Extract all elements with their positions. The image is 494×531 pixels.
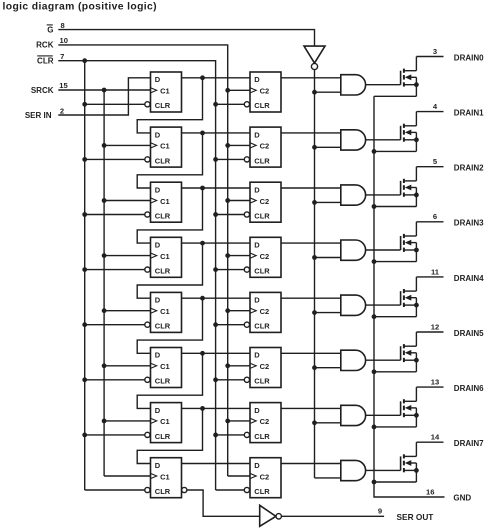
wire CLR rail to C2 CLR row 4 xyxy=(216,324,245,326)
wire G input to inverter xyxy=(58,30,314,46)
svg-text:SER IN: SER IN xyxy=(25,111,52,120)
svg-text:2: 2 xyxy=(60,106,64,115)
junction C1 CLR rail row 4 xyxy=(82,322,87,327)
svg-text:5: 5 xyxy=(433,157,438,166)
AND gate row 2 xyxy=(341,185,366,205)
junction SRCK / SRCK rail xyxy=(102,88,107,93)
svg-text:CLR: CLR xyxy=(155,377,171,386)
svg-text:16: 16 xyxy=(426,488,434,497)
svg-text:10: 10 xyxy=(59,36,67,45)
wire Q3 to storage D row 3 xyxy=(182,242,251,244)
junction RCK rail row 6 xyxy=(225,419,230,424)
AND gate row 1 xyxy=(341,130,366,150)
svg-text:D: D xyxy=(254,130,260,139)
svg-text:C2: C2 xyxy=(260,307,270,316)
svg-text:C1: C1 xyxy=(160,87,170,96)
svg-text:CLR: CLR xyxy=(254,156,270,165)
svg-text:SER OUT: SER OUT xyxy=(397,512,434,522)
flip-flop shift stage 3 (C1) xyxy=(145,237,182,277)
wire G-bar to AND input row 3 xyxy=(315,257,341,259)
wire RCK rail to C2 clock row 3 xyxy=(228,255,250,257)
flip-flop storage stage 1 (C2) xyxy=(244,127,281,167)
svg-text:12: 12 xyxy=(431,322,439,331)
flip-flop shift stage 4 (C1) xyxy=(145,292,182,332)
AND gate row 7 xyxy=(341,460,366,480)
svg-text:DRAIN2: DRAIN2 xyxy=(454,164,484,173)
svg-text:logic diagram (positive logic): logic diagram (positive logic) xyxy=(3,1,158,12)
wire CLR rail to C1 CLR row 0 xyxy=(85,103,145,105)
svg-text:C1: C1 xyxy=(160,142,170,151)
junction SRCK rail row 4 xyxy=(102,308,107,313)
wire Q chain row 4 to D row 5 xyxy=(137,298,202,353)
wire drain pin row 6 xyxy=(416,386,443,388)
svg-text:DRAIN6: DRAIN6 xyxy=(454,384,484,393)
wire AND output to gate row 1 xyxy=(366,139,401,141)
wire SRCK rail to C1 clock row 4 xyxy=(104,310,150,312)
wire storage Q7 to AND input row 7 xyxy=(281,463,341,465)
wire G-bar to AND input row 2 xyxy=(315,201,341,203)
svg-text:14: 14 xyxy=(431,433,440,442)
power MOSFET Q7 (DRAIN7) xyxy=(401,442,419,482)
svg-text:7: 7 xyxy=(60,52,64,61)
wire Q-bar to SER OUT inverter xyxy=(187,490,260,516)
junction G-bar rail row 5 xyxy=(312,365,317,370)
svg-text:D: D xyxy=(254,185,260,194)
AND gate row 4 xyxy=(341,295,366,315)
svg-text:DRAIN3: DRAIN3 xyxy=(454,219,484,228)
svg-text:6: 6 xyxy=(433,212,437,221)
svg-text:CLR: CLR xyxy=(254,487,270,496)
wire SER IN to first D input xyxy=(58,78,150,115)
svg-text:D: D xyxy=(254,75,260,84)
svg-text:11: 11 xyxy=(431,267,440,276)
wire SRCK rail to C1 clock row 7 xyxy=(104,475,150,477)
wire drain pin row 5 xyxy=(416,331,443,333)
wire G-bar to AND input row 7 xyxy=(315,477,341,479)
svg-text:4: 4 xyxy=(433,102,438,111)
wire storage Q2 to AND input row 2 xyxy=(281,187,341,189)
svg-text:C2: C2 xyxy=(260,197,270,206)
svg-text:D: D xyxy=(155,130,161,139)
wire CLR rail to C1 CLR row 5 xyxy=(85,379,145,381)
wire source to GND rail row 3 xyxy=(374,261,416,263)
power MOSFET Q2 (DRAIN2) xyxy=(401,167,419,207)
wire drain pin row 2 xyxy=(416,166,443,168)
wire Q0 to storage D row 0 xyxy=(182,77,251,79)
wire Q chain row 5 to D row 6 xyxy=(137,353,202,408)
svg-text:C1: C1 xyxy=(160,252,170,261)
svg-text:3: 3 xyxy=(433,47,437,56)
svg-text:C2: C2 xyxy=(260,252,270,261)
svg-text:C1: C1 xyxy=(160,197,170,206)
flip-flop storage stage 2 (C2) xyxy=(244,182,281,222)
wire CLR rail to C1 CLR row 1 xyxy=(85,158,145,160)
inverter U1 (G enable) xyxy=(304,46,325,70)
flip-flop storage stage 6 (C2) xyxy=(244,403,281,443)
svg-text:C2: C2 xyxy=(260,362,270,371)
junction GND rail row 1 xyxy=(372,149,377,154)
junction C2 CLR rail row 5 xyxy=(213,377,218,382)
junction SRCK rail row 5 xyxy=(102,363,107,368)
svg-text:CLR: CLR xyxy=(155,487,171,496)
svg-text:GND: GND xyxy=(453,493,471,502)
power MOSFET Q3 (DRAIN3) xyxy=(401,222,419,262)
wire G-bar rail xyxy=(314,70,316,478)
svg-text:DRAIN7: DRAIN7 xyxy=(454,439,484,448)
junction Q chain row 3 xyxy=(200,241,205,246)
svg-text:C1: C1 xyxy=(160,417,170,426)
junction G-bar rail row 6 xyxy=(312,420,317,425)
wire AND output to gate row 5 xyxy=(366,359,401,361)
svg-text:DRAIN0: DRAIN0 xyxy=(454,53,484,62)
junction Q chain row 0 xyxy=(200,75,205,80)
wire G-bar to AND input row 5 xyxy=(315,367,341,369)
junction G-bar rail row 2 xyxy=(312,200,317,205)
wire storage Q6 to AND input row 6 xyxy=(281,407,341,409)
svg-text:CLR: CLR xyxy=(254,377,270,386)
wire SRCK rail to C1 clock row 5 xyxy=(104,365,150,367)
junction Q chain row 2 xyxy=(200,186,205,191)
wire CLR rail to C2 CLR row 1 xyxy=(216,158,245,160)
svg-text:C2: C2 xyxy=(260,87,270,96)
svg-text:9: 9 xyxy=(378,507,382,516)
wire storage Q1 to AND input row 1 xyxy=(281,132,341,134)
wire RCK rail to C2 clock row 0 xyxy=(228,89,250,91)
junction C2 CLR rail row 4 xyxy=(213,322,218,327)
flip-flop shift stage 7 (C1) xyxy=(145,458,182,498)
wire RCK to RCK rail xyxy=(58,45,227,476)
wire drain pin row 3 xyxy=(416,221,443,223)
wire G-bar to AND input row 1 xyxy=(315,146,341,148)
wire SRCK rail to C1 clock row 6 xyxy=(104,420,150,422)
junction C2 CLR rail row 6 xyxy=(213,433,218,438)
junction GND rail row 6 xyxy=(372,425,377,430)
svg-text:C2: C2 xyxy=(260,417,270,426)
wire Q5 to storage D row 5 xyxy=(182,352,251,354)
AND gate row 5 xyxy=(341,350,366,370)
svg-text:D: D xyxy=(254,241,260,250)
wire CLR rail to C2 CLR row 5 xyxy=(216,379,245,381)
flip-flop shift stage 6 (C1) xyxy=(145,403,182,443)
junction RCK rail row 4 xyxy=(225,308,230,313)
wire RCK rail to C2 clock row 7 xyxy=(228,475,250,477)
svg-text:G: G xyxy=(47,25,53,34)
svg-text:CLR: CLR xyxy=(155,101,171,110)
junction C1 CLR rail row 3 xyxy=(82,267,87,272)
junction GND rail row 3 xyxy=(372,259,377,264)
AND gate row 6 xyxy=(341,405,366,425)
flip-flop shift stage 2 (C1) xyxy=(145,182,182,222)
wire CLR rail to C2 CLR row 6 xyxy=(216,434,245,436)
wire storage Q4 to AND input row 4 xyxy=(281,297,341,299)
junction GND rail row 5 xyxy=(372,369,377,374)
power MOSFET Q5 (DRAIN5) xyxy=(401,332,419,372)
svg-text:CLR: CLR xyxy=(254,211,270,220)
svg-text:15: 15 xyxy=(59,81,68,90)
wire drain pin row 4 xyxy=(416,276,443,278)
wire source to GND rail row 0 xyxy=(374,95,416,97)
junction RCK rail row 0 xyxy=(225,88,230,93)
svg-text:D: D xyxy=(155,75,161,84)
AND gate row 3 xyxy=(341,240,366,260)
junction G-bar rail row 0 xyxy=(312,90,317,95)
wire Q1 to storage D row 1 xyxy=(182,132,251,134)
junction GND rail row 2 xyxy=(372,204,377,209)
junction RCK rail row 3 xyxy=(225,253,230,258)
inverted output bubble of shift stage 7 xyxy=(182,487,187,492)
wire AND output to gate row 4 xyxy=(366,304,401,306)
junction GND rail row 7 xyxy=(372,480,377,485)
svg-text:CLR: CLR xyxy=(155,267,171,276)
junction RCK rail row 5 xyxy=(225,363,230,368)
flip-flop shift stage 1 (C1) xyxy=(145,127,182,167)
svg-text:D: D xyxy=(254,406,260,415)
wire RCK rail to C2 clock row 1 xyxy=(228,144,250,146)
wire RCK rail to C2 clock row 5 xyxy=(228,365,250,367)
wire source to GND rail row 1 xyxy=(374,150,416,152)
wire CLR rail to C1 CLR row 7 xyxy=(85,489,145,491)
input label G (active low) pin 8 xyxy=(47,21,65,35)
svg-text:C1: C1 xyxy=(160,362,170,371)
wire CLR rail to shift-register CLR inputs xyxy=(84,61,86,490)
svg-text:D: D xyxy=(254,461,260,470)
wire drain pin row 0 xyxy=(416,56,443,58)
svg-text:D: D xyxy=(155,351,161,360)
wire SRCK to first C1 clock xyxy=(58,89,150,91)
svg-text:CLR: CLR xyxy=(254,322,270,331)
svg-text:C2: C2 xyxy=(260,472,270,481)
junction C2 CLR rail row 1 xyxy=(213,157,218,162)
flip-flop storage stage 3 (C2) xyxy=(244,237,281,277)
power MOSFET Q6 (DRAIN6) xyxy=(401,387,419,427)
inverter U2 (SER OUT) xyxy=(260,505,282,526)
svg-text:CLR: CLR xyxy=(155,432,171,441)
svg-text:D: D xyxy=(155,406,161,415)
wire G-bar to AND input row 0 xyxy=(315,91,341,93)
wire AND output to gate row 2 xyxy=(366,194,401,196)
wire storage Q5 to AND input row 5 xyxy=(281,352,341,354)
flip-flop storage stage 4 (C2) xyxy=(244,292,281,332)
svg-text:DRAIN4: DRAIN4 xyxy=(454,274,484,283)
junction C2 CLR rail row 2 xyxy=(213,212,218,217)
junction SRCK rail row 3 xyxy=(102,253,107,258)
wire CLR rail to C2 CLR row 3 xyxy=(216,269,245,271)
wire CLR rail to C2 CLR row 7 xyxy=(216,489,245,491)
svg-text:D: D xyxy=(254,296,260,305)
wire Q4 to storage D row 4 xyxy=(182,297,251,299)
input label SRCK pin 15 xyxy=(31,81,69,95)
wire source to GND rail row 4 xyxy=(374,316,416,318)
svg-text:D: D xyxy=(155,296,161,305)
wire RCK rail to C2 clock row 6 xyxy=(228,420,250,422)
input label CLR (active low) pin 7 xyxy=(37,52,64,66)
wire AND output to gate row 3 xyxy=(366,249,401,251)
junction Q chain row 5 xyxy=(200,351,205,356)
input label SER IN pin 2 xyxy=(25,106,64,120)
junction G-bar rail row 1 xyxy=(312,145,317,150)
wire GND rail xyxy=(374,96,445,497)
svg-text:CLR: CLR xyxy=(155,211,171,220)
svg-text:D: D xyxy=(254,351,260,360)
wire Q chain row 1 to D row 2 xyxy=(137,133,202,188)
wire SRCK rail to C1 clock row 2 xyxy=(104,200,150,202)
svg-text:D: D xyxy=(155,461,161,470)
svg-text:DRAIN5: DRAIN5 xyxy=(454,329,484,338)
flip-flop shift stage 0 (C1) xyxy=(145,72,182,112)
junction G-bar rail row 3 xyxy=(312,255,317,260)
junction Q chain row 4 xyxy=(200,296,205,301)
wire SRCK rail to C1 clock row 3 xyxy=(104,255,150,257)
wire Q chain row 2 to D row 3 xyxy=(137,188,202,243)
wire CLR rail to C1 CLR row 6 xyxy=(85,434,145,436)
wire CLR rail to C2 CLR row 2 xyxy=(216,214,245,216)
junction RCK rail row 2 xyxy=(225,198,230,203)
junction G-bar rail row 4 xyxy=(312,310,317,315)
svg-text:D: D xyxy=(155,185,161,194)
junction CLR / C1-CLR rail xyxy=(82,58,87,63)
junction C1 CLR rail row 1 xyxy=(82,157,87,162)
svg-text:DRAIN1: DRAIN1 xyxy=(454,109,484,118)
svg-text:CLR: CLR xyxy=(155,156,171,165)
junction C1 CLR rail row 0 xyxy=(82,102,87,107)
junction SRCK rail row 1 xyxy=(102,143,107,148)
junction GND rail row 4 xyxy=(372,314,377,319)
wire drain pin row 1 xyxy=(416,111,443,113)
svg-text:RCK: RCK xyxy=(36,41,54,50)
flip-flop shift stage 5 (C1) xyxy=(145,348,182,388)
svg-text:C2: C2 xyxy=(260,142,270,151)
wire G-bar to AND input row 4 xyxy=(315,312,341,314)
flip-flop storage stage 5 (C2) xyxy=(244,348,281,388)
wire SRCK rail to C1 clock row 1 xyxy=(104,144,150,146)
junction C2 CLR rail row 0 xyxy=(213,102,218,107)
wire AND output to gate row 7 xyxy=(366,469,401,471)
svg-text:C1: C1 xyxy=(160,307,170,316)
wire storage Q0 to AND input row 0 xyxy=(281,77,341,79)
wire SRCK rail xyxy=(103,90,105,476)
junction C1 CLR rail row 5 xyxy=(82,377,87,382)
svg-text:13: 13 xyxy=(431,378,439,387)
wire storage Q3 to AND input row 3 xyxy=(281,242,341,244)
svg-text:CLR: CLR xyxy=(254,432,270,441)
svg-text:CLR: CLR xyxy=(37,57,54,66)
wire Q7 to storage D row 7 xyxy=(182,463,251,465)
junction SRCK rail row 2 xyxy=(102,198,107,203)
wire RCK rail to C2 clock row 4 xyxy=(228,310,250,312)
flip-flop storage stage 7 (C2) xyxy=(244,458,281,498)
wire SER OUT pin 9 xyxy=(281,515,384,517)
junction RCK rail row 1 xyxy=(225,143,230,148)
svg-text:CLR: CLR xyxy=(155,322,171,331)
wire CLR input line xyxy=(58,61,215,490)
power MOSFET Q1 (DRAIN1) xyxy=(401,112,419,152)
wire Q chain row 6 to D row 7 xyxy=(137,408,202,463)
junction Q chain row 6 xyxy=(200,406,205,411)
junction C1 CLR rail row 2 xyxy=(82,212,87,217)
wire Q chain row 3 to D row 4 xyxy=(137,243,202,298)
input label RCK pin 10 xyxy=(36,36,68,50)
svg-text:CLR: CLR xyxy=(254,101,270,110)
wire source to GND rail row 5 xyxy=(374,371,416,373)
wire G-bar to AND input row 6 xyxy=(315,422,341,424)
svg-text:SRCK: SRCK xyxy=(31,86,54,95)
svg-text:C1: C1 xyxy=(160,472,170,481)
power MOSFET Q0 (DRAIN0) xyxy=(401,57,419,97)
junction C1 CLR rail row 6 xyxy=(82,433,87,438)
wire Q2 to storage D row 2 xyxy=(182,187,251,189)
wire Q chain row 0 to D row 1 xyxy=(137,78,202,133)
wire source to GND rail row 2 xyxy=(374,206,416,208)
wire CLR rail to C1 CLR row 3 xyxy=(85,269,145,271)
flip-flop storage stage 0 (C2) xyxy=(244,72,281,112)
wire source to GND rail row 7 xyxy=(374,481,416,483)
junction SRCK rail row 6 xyxy=(102,419,107,424)
svg-text:8: 8 xyxy=(60,21,64,30)
wire AND output to gate row 6 xyxy=(366,414,401,416)
wire RCK rail to C2 clock row 2 xyxy=(228,200,250,202)
power MOSFET Q4 (DRAIN4) xyxy=(401,277,419,317)
wire source to GND rail row 6 xyxy=(374,426,416,428)
junction C2 CLR rail row 3 xyxy=(213,267,218,272)
wire CLR rail to C1 CLR row 4 xyxy=(85,324,145,326)
svg-text:CLR: CLR xyxy=(254,267,270,276)
wire CLR rail to C1 CLR row 2 xyxy=(85,214,145,216)
wire Q6 to storage D row 6 xyxy=(182,407,251,409)
wire CLR rail to C2 CLR row 0 xyxy=(216,103,245,105)
svg-text:D: D xyxy=(155,241,161,250)
wire drain pin row 7 xyxy=(416,441,443,443)
wire AND output to gate row 0 xyxy=(366,84,401,86)
AND gate row 0 xyxy=(341,75,366,95)
junction Q chain row 1 xyxy=(200,131,205,136)
